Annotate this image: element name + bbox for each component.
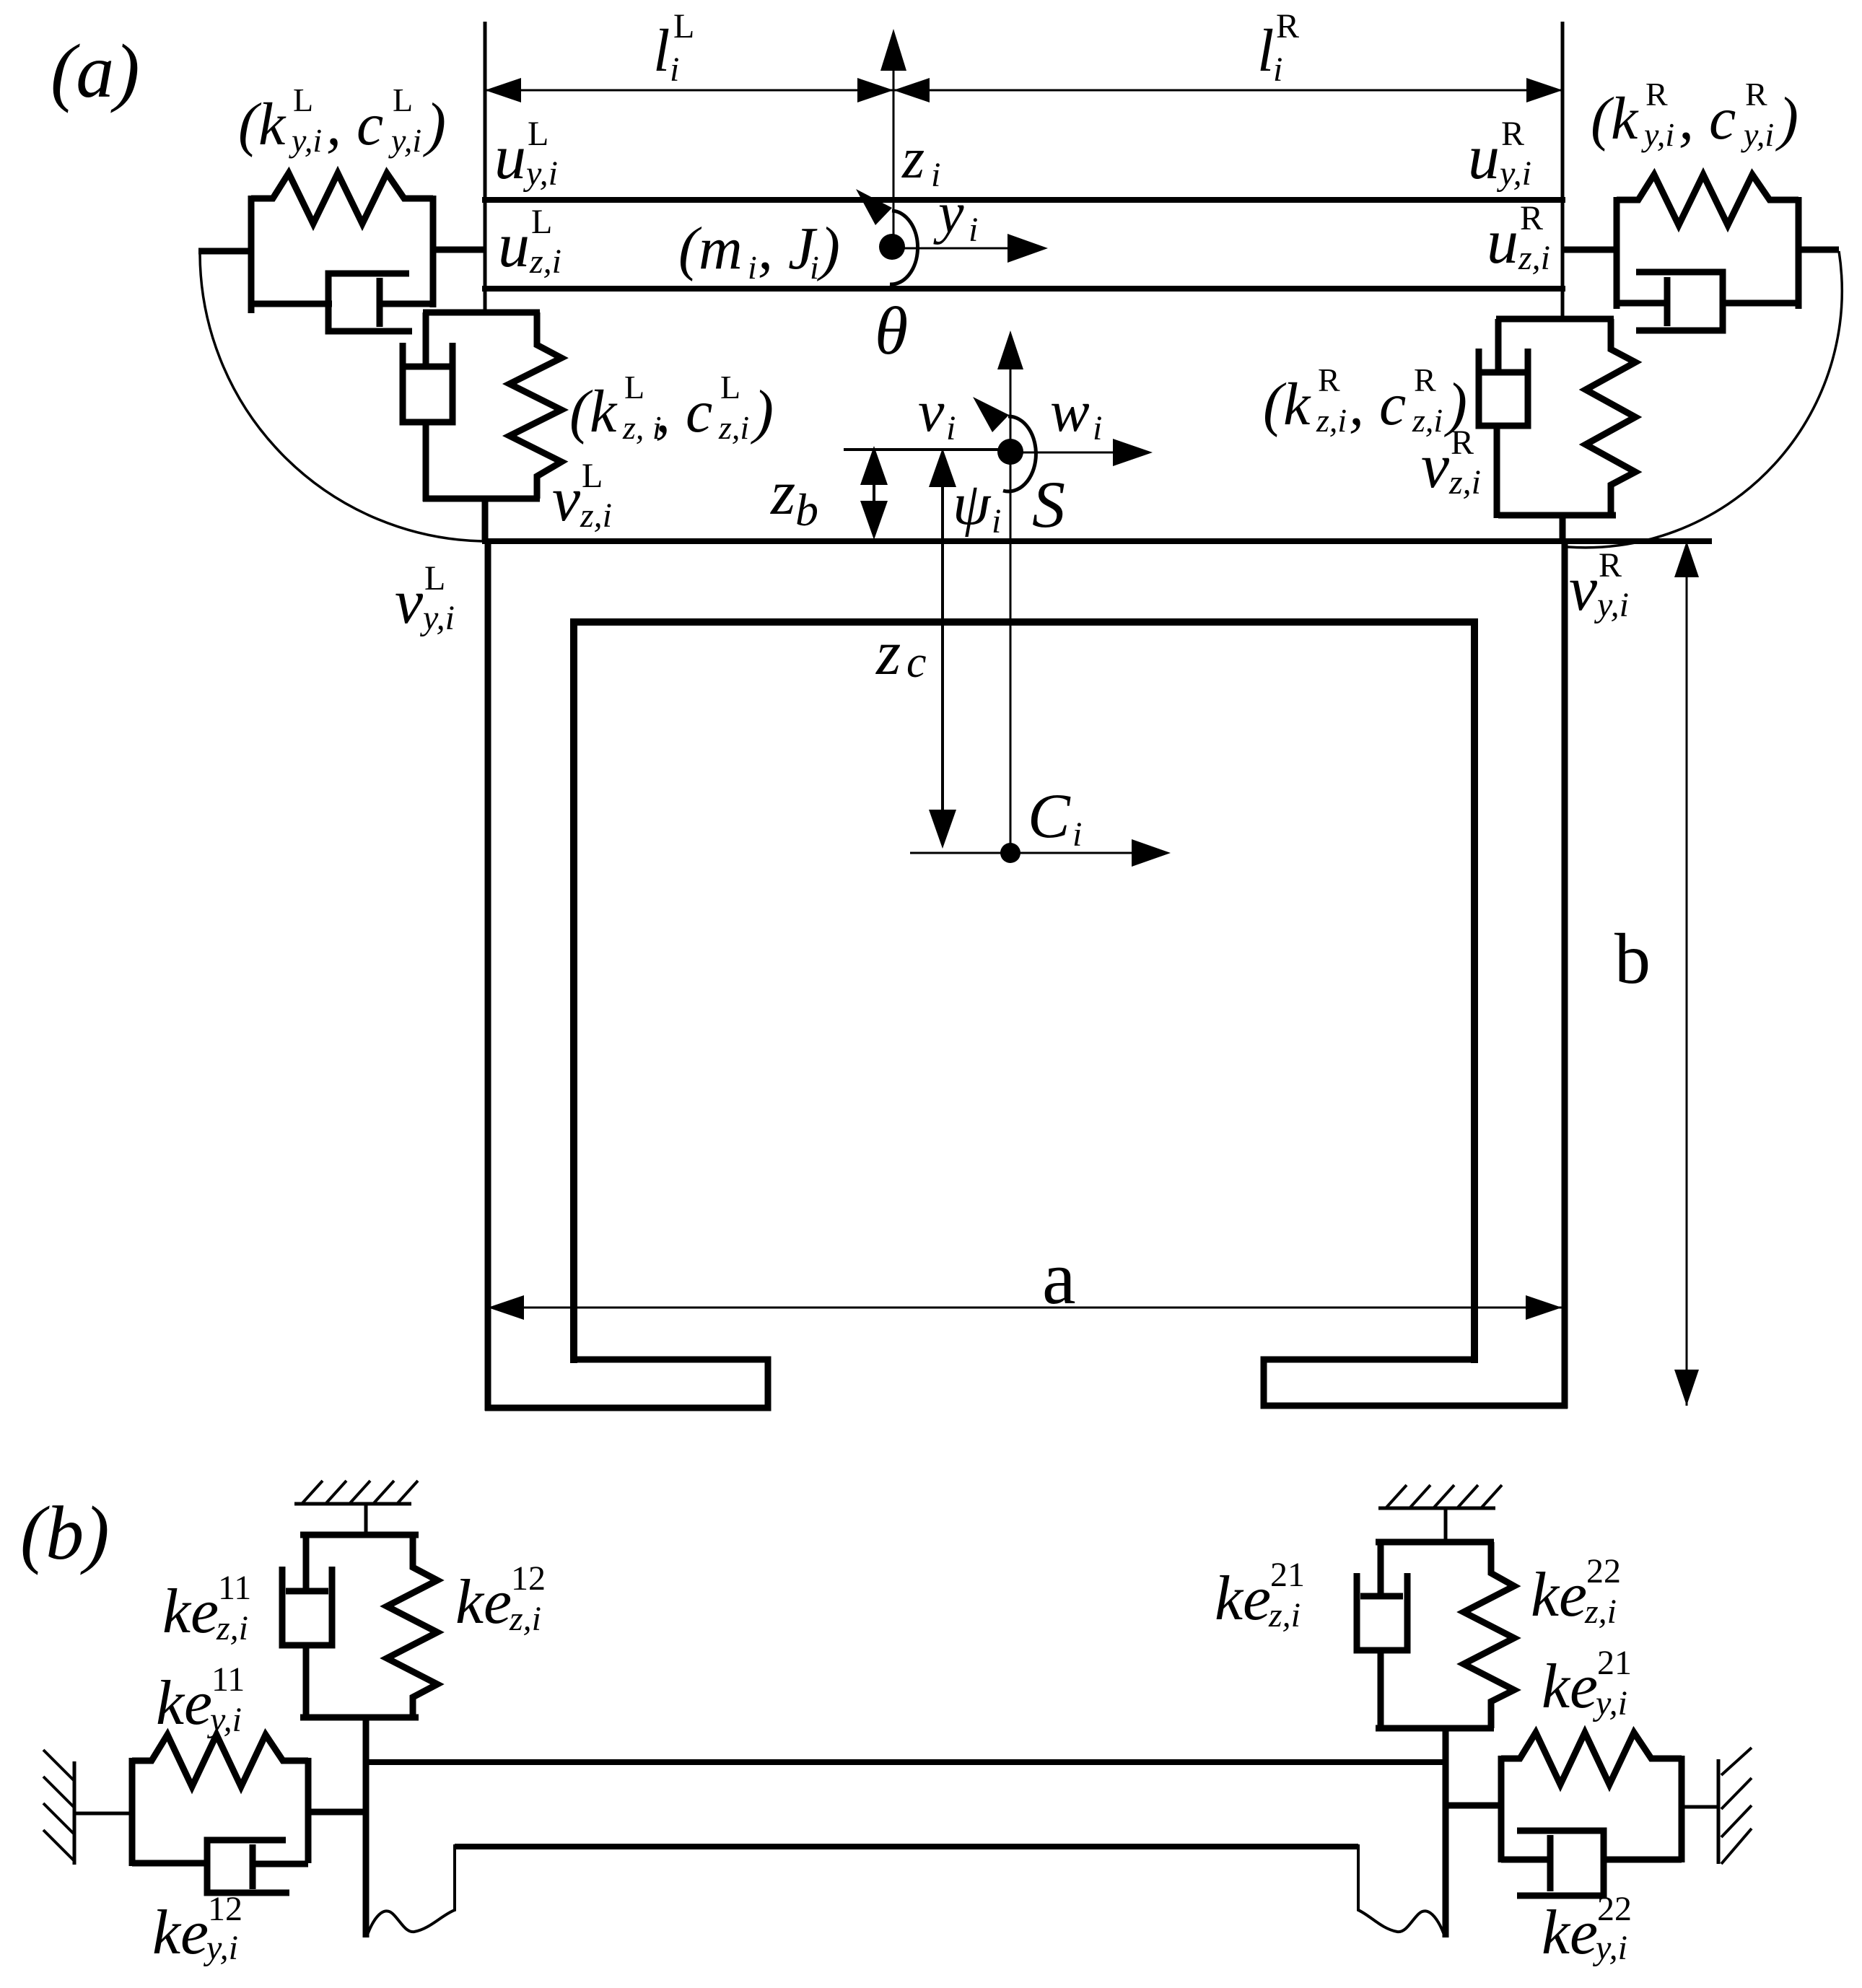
label v_y,i^R — [1569, 546, 1629, 624]
svg-text:y,i: y,i — [206, 1701, 242, 1739]
svg-text:(k: (k — [1591, 85, 1639, 152]
rail mass node dot — [879, 234, 905, 260]
anchor arc left — [200, 254, 482, 541]
svg-text:y,i: y,i — [523, 154, 558, 193]
svg-text:(b): (b) — [20, 1491, 110, 1575]
spring ke_y,i^11 — [132, 1735, 308, 1787]
svg-text:z: z — [901, 127, 925, 191]
damper ke_z,i^21 piston plate — [1360, 1593, 1403, 1600]
svg-text:): ) — [1775, 85, 1798, 152]
slab left outer wall — [485, 538, 491, 1411]
wire k_z^L to slab — [482, 499, 489, 541]
svg-text:ke: ke — [1215, 1564, 1271, 1634]
svg-text:21: 21 — [1597, 1644, 1632, 1682]
svg-text:u: u — [498, 211, 530, 281]
svg-text:(a): (a) — [51, 29, 140, 113]
svg-text:z: z — [770, 458, 795, 528]
svg-text:z,i: z,i — [529, 242, 561, 281]
slab inner rectangle — [574, 622, 1474, 1363]
wire beam node to box ke_y^2 — [1446, 1803, 1501, 1809]
anchor arc right — [1568, 251, 1842, 548]
label ke_y,i^11 — [156, 1660, 245, 1739]
wire k_z^R to slab — [1560, 515, 1566, 541]
svg-text:z,i: z,i — [718, 409, 749, 446]
beam left node line — [363, 1717, 370, 1937]
svg-text:L: L — [624, 369, 644, 406]
label ke_y,i^12 — [152, 1890, 242, 1968]
svg-text:R: R — [1645, 76, 1668, 113]
svg-text:L: L — [673, 7, 694, 45]
dimension z_c — [875, 448, 956, 849]
svg-text:L: L — [293, 82, 313, 118]
svg-text:R: R — [1318, 362, 1340, 398]
svg-text:z,i: z,i — [1268, 1596, 1301, 1634]
beam left break wavy — [367, 1844, 455, 1937]
rotation arrow theta — [856, 189, 918, 369]
wire cup to bottom bar (ke_z^1) — [303, 1645, 310, 1720]
spring k_y^R — [1617, 175, 1798, 225]
beam (b) top edge — [367, 1759, 1446, 1765]
axis z_i — [880, 29, 940, 247]
wire cup to bottom bar (ke_z^2) — [1378, 1650, 1384, 1731]
slab left foot bottom — [485, 1359, 768, 1408]
svg-text:y,i: y,i — [419, 599, 455, 637]
label (b) — [20, 1491, 110, 1575]
ground left wall — [43, 1750, 74, 1865]
damper c_z^R rod — [1495, 319, 1502, 369]
extension line left (rail end) — [484, 22, 487, 312]
anchor stub right — [1798, 247, 1839, 253]
svg-text:S: S — [1032, 468, 1065, 541]
rotation arrow psi_i with v_i arrowhead — [918, 378, 1065, 541]
damper c_y^L piston — [380, 278, 433, 327]
kelvin unit ke_z^2 bottom bar — [1376, 1725, 1494, 1732]
svg-text:22: 22 — [1586, 1552, 1621, 1590]
label ke_z,i^22 — [1531, 1552, 1621, 1631]
wire cup to bottom bar (k_z^R) — [1494, 426, 1500, 518]
damper ke_y,i^22 rod left — [1501, 1857, 1550, 1863]
label (k_y,i^L, c_y,i^L) — [238, 82, 446, 159]
damper ke_y,i^22 piston — [1550, 1835, 1682, 1891]
svg-text:y,i: y,i — [1496, 154, 1531, 193]
slab right foot bottom — [1264, 1359, 1568, 1406]
spring k_z^R — [1586, 319, 1635, 515]
kelvin unit k_z^R bottom bar — [1498, 512, 1616, 519]
svg-text:ke: ke — [1531, 1560, 1587, 1630]
extension line right (rail end) — [1561, 22, 1565, 321]
svg-text:(k: (k — [569, 378, 618, 445]
svg-text:ψ: ψ — [953, 470, 992, 538]
svg-text:L: L — [528, 115, 548, 153]
damper c_z^L cup — [403, 343, 453, 422]
label u_y,i^L — [494, 115, 558, 193]
svg-text:R: R — [1501, 115, 1524, 153]
label v_z,i^L — [552, 457, 612, 535]
svg-text:ke: ke — [162, 1577, 219, 1647]
svg-text:y,i: y,i — [203, 1929, 238, 1967]
damper c_y^L rod left — [251, 301, 332, 307]
label ke_z,i^21 — [1215, 1556, 1305, 1634]
svg-text:ke: ke — [455, 1567, 512, 1637]
damper ke_z,i^11 rod — [303, 1535, 310, 1591]
svg-text:22: 22 — [1597, 1890, 1632, 1928]
damper ke_z,i^11 piston plate — [286, 1588, 328, 1595]
svg-text:): ) — [423, 91, 446, 158]
beam (b) bottom edge — [455, 1844, 1358, 1849]
damper c_y^L cup — [328, 273, 412, 331]
kelvin box k_y^L left bar — [248, 196, 255, 313]
svg-text:L: L — [582, 457, 603, 495]
svg-text:y,i: y,i — [1592, 1929, 1627, 1967]
svg-text:w: w — [1050, 378, 1090, 444]
kelvin box ke_y^1 right bar — [305, 1758, 312, 1863]
svg-text:): ) — [817, 215, 840, 282]
svg-text:z,i: z,i — [1518, 239, 1550, 277]
wire box ke_y^1 to beam node — [308, 1809, 366, 1816]
svg-text:, c: , c — [1349, 371, 1406, 438]
svg-text:i: i — [810, 249, 819, 286]
svg-text:(m: (m — [678, 215, 743, 282]
label (m_i, J_i) — [678, 215, 840, 286]
svg-text:, J: , J — [758, 215, 818, 282]
label ke_y,i^21 — [1542, 1644, 1632, 1722]
damper c_z^L rod — [423, 312, 429, 364]
kelvin box k_y^L right bar — [430, 196, 437, 307]
kelvin unit ke_z^2 top bar — [1376, 1539, 1494, 1546]
svg-text:i: i — [670, 51, 679, 89]
dimension l_i^L — [485, 7, 893, 102]
svg-text:ke: ke — [1542, 1652, 1598, 1722]
svg-text:i: i — [992, 502, 1001, 540]
slab right outer wall — [1562, 538, 1568, 1409]
wire ground to unit ke_z^2 — [1444, 1508, 1448, 1542]
svg-text:i: i — [748, 249, 757, 286]
spring k_y^L — [251, 173, 433, 224]
label u_y,i^R — [1468, 115, 1531, 193]
svg-text:z,i: z,i — [580, 496, 612, 535]
svg-text:, c: , c — [1679, 85, 1736, 152]
svg-text:v: v — [1421, 432, 1450, 502]
ground top-right — [1378, 1485, 1502, 1508]
svg-text:b: b — [1614, 919, 1651, 999]
damper ke_z,i^21 cup — [1357, 1573, 1407, 1650]
spring k_z^L — [510, 312, 561, 499]
svg-text:u: u — [494, 123, 526, 193]
kelvin box k_y^R left bar — [1614, 197, 1620, 309]
svg-text:u: u — [1468, 123, 1500, 193]
wire box k_y^L to rail — [433, 247, 486, 253]
svg-text:θ: θ — [875, 294, 908, 369]
label (k_z,i^R, c_z,i^R) — [1263, 362, 1467, 439]
damper ke_y,i^12 rod left — [132, 1860, 209, 1867]
svg-text:y,i: y,i — [1741, 116, 1774, 153]
kelvin box k_y^R right bar — [1796, 197, 1802, 309]
kelvin unit ke_z^1 bottom bar — [300, 1715, 419, 1721]
svg-text:C: C — [1028, 781, 1071, 851]
svg-text:c: c — [906, 638, 927, 687]
dimension a — [488, 1235, 1562, 1320]
svg-text:R: R — [1745, 76, 1767, 113]
svg-text:11: 11 — [211, 1660, 245, 1699]
svg-text:ke: ke — [156, 1668, 212, 1738]
rail beam bottom edge — [482, 286, 1565, 292]
svg-text:a: a — [1042, 1235, 1076, 1320]
svg-text:12: 12 — [511, 1559, 546, 1598]
svg-text:l: l — [1257, 17, 1274, 84]
kelvin unit k_z^L top bar — [423, 310, 540, 316]
svg-text:(k: (k — [238, 91, 287, 158]
svg-text:z,i: z,i — [509, 1600, 541, 1638]
svg-text:L: L — [424, 559, 445, 597]
svg-text:z,i: z,i — [216, 1609, 248, 1647]
kelvin unit k_z^R top bar — [1496, 316, 1614, 323]
svg-text:u: u — [1487, 207, 1518, 277]
svg-text:R: R — [1520, 199, 1543, 237]
svg-text:l: l — [653, 17, 670, 84]
svg-text:i: i — [1093, 409, 1102, 447]
svg-text:z,i: z,i — [1448, 463, 1481, 502]
spring ke_z,i^12 — [387, 1535, 437, 1717]
damper ke_z,i^21 rod — [1378, 1542, 1384, 1596]
svg-text:z,i: z,i — [1316, 402, 1347, 439]
svg-text:z,i: z,i — [1584, 1593, 1617, 1631]
kelvin unit ke_z^1 top bar — [300, 1532, 419, 1538]
ground right wall — [1718, 1748, 1752, 1864]
damper ke_y,i^22 cup — [1517, 1831, 1604, 1896]
damper c_y^R cup — [1636, 272, 1723, 330]
beam right node line — [1443, 1728, 1449, 1937]
damper ke_y,i^12 cup — [207, 1840, 289, 1893]
damper c_z^R piston plate — [1480, 369, 1526, 376]
svg-text:, c: , c — [326, 91, 383, 158]
spring ke_z,i^22 — [1464, 1542, 1514, 1728]
label u_z,i^L — [498, 203, 561, 281]
svg-text:R: R — [1599, 546, 1622, 584]
spring ke_y,i^21 — [1501, 1733, 1682, 1785]
label (a) — [51, 29, 140, 113]
anchor stub left — [198, 248, 251, 255]
svg-text:i: i — [969, 211, 978, 249]
svg-text:y: y — [933, 182, 964, 245]
label ke_z,i^11 — [162, 1569, 251, 1647]
svg-text:y,i: y,i — [1594, 586, 1629, 624]
label (k_y,i^R, c_y,i^R) — [1591, 76, 1798, 153]
node S dot — [997, 439, 1023, 465]
svg-text:(k: (k — [1263, 371, 1311, 438]
dimension b — [1614, 541, 1699, 1406]
svg-text:ke: ke — [152, 1898, 209, 1968]
svg-text:y,i: y,i — [1592, 1684, 1627, 1722]
damper c_z^R cup — [1479, 349, 1528, 426]
svg-text:R: R — [1414, 362, 1436, 398]
axis y_i — [892, 182, 1048, 263]
wire ground wall to box ke_y^1 — [74, 1812, 132, 1816]
kelvin box ke_y^2 right bar — [1679, 1756, 1685, 1862]
svg-text:, c: , c — [655, 378, 712, 445]
svg-text:y,i: y,i — [1641, 116, 1674, 153]
damper ke_z,i^11 cup — [282, 1567, 332, 1645]
rail beam top edge — [482, 197, 1565, 203]
svg-text:): ) — [751, 378, 774, 445]
beam right break wavy — [1358, 1844, 1445, 1937]
svg-text:11: 11 — [218, 1569, 251, 1607]
svg-text:v: v — [395, 567, 424, 637]
wire rail to box k_y^R — [1562, 247, 1617, 253]
dimension z_b — [770, 446, 888, 540]
svg-text:z: z — [875, 618, 901, 688]
svg-text:v: v — [1569, 554, 1598, 624]
kelvin box ke_y^1 left bar — [129, 1758, 136, 1866]
damper c_y^R rod left — [1617, 300, 1667, 307]
svg-text:i: i — [946, 409, 956, 447]
slab top surface line — [482, 538, 1712, 544]
ground top-left — [294, 1481, 418, 1504]
damper c_y^R piston — [1667, 277, 1798, 326]
datum line at S — [844, 448, 1010, 451]
dimension l_i^R — [893, 7, 1562, 102]
damper c_z^L piston plate — [405, 364, 450, 370]
axis w_i — [1010, 378, 1153, 466]
kelvin box ke_y^2 left bar — [1498, 1756, 1505, 1862]
svg-text:i: i — [1273, 51, 1282, 89]
wire cup to bottom bar (k_z^L) — [423, 422, 429, 502]
label ke_y,i^22 — [1542, 1890, 1632, 1968]
svg-text:L: L — [720, 369, 740, 406]
svg-text:y,i: y,i — [388, 122, 421, 159]
svg-text:12: 12 — [208, 1890, 242, 1928]
svg-text:21: 21 — [1270, 1556, 1305, 1594]
label v_z,i^R — [1421, 424, 1481, 502]
label u_z,i^R — [1487, 199, 1550, 277]
kelvin unit k_z^L bottom bar — [423, 496, 540, 502]
svg-text:v: v — [552, 465, 581, 535]
label v_y,i^L — [395, 559, 455, 637]
axis vertical through S — [997, 330, 1023, 851]
node C_i dot and axis — [910, 781, 1171, 867]
svg-text:y,i: y,i — [289, 122, 322, 159]
svg-text:L: L — [393, 82, 413, 118]
svg-text:R: R — [1276, 7, 1299, 45]
damper ke_y,i^12 piston — [253, 1844, 308, 1889]
svg-text:v: v — [918, 378, 945, 444]
svg-text:ke: ke — [1542, 1898, 1598, 1968]
label ke_z,i^12 — [455, 1559, 546, 1638]
label (k_z,i^L, c_z,i^L) — [569, 369, 774, 446]
wire ground to unit ke_z^1 — [364, 1502, 368, 1535]
svg-text:b: b — [795, 484, 818, 535]
svg-text:L: L — [531, 203, 552, 241]
svg-text:R: R — [1451, 424, 1474, 462]
wire box ke_y^2 to ground wall — [1682, 1805, 1718, 1809]
svg-text:i: i — [1072, 815, 1082, 854]
